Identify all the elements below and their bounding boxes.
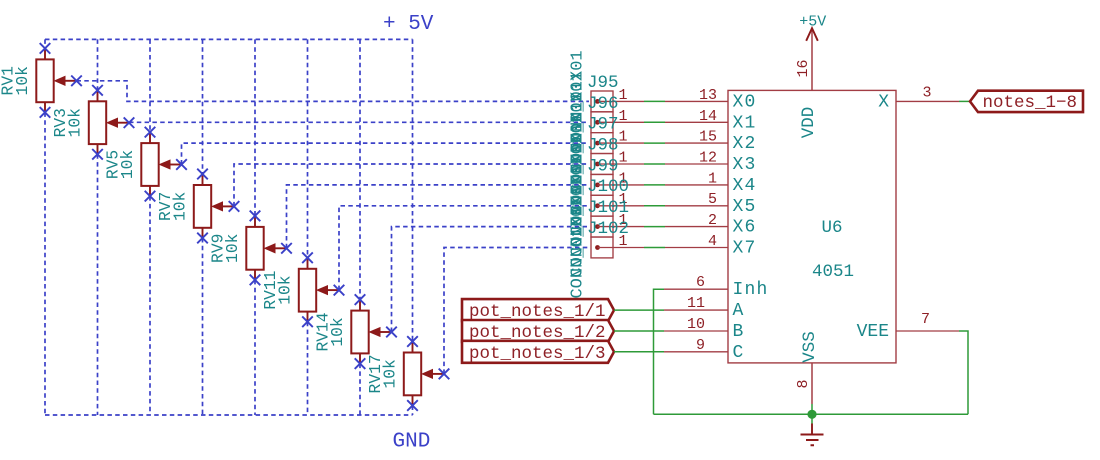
connector J102 CONN_01X01 [591, 237, 644, 258]
wire J100 to U6 X5 [644, 205, 665, 207]
junction X RV7 pin3 (bottom) [197, 233, 208, 244]
U6 pin 14 (X1) [665, 121, 728, 123]
net GND bottom bus wire [45, 414, 413, 416]
wire J99 to U6 X4 [644, 184, 665, 186]
wire pot_notes_1/2 to U6 [614, 330, 664, 332]
potentiometer RV1 10k [36, 48, 76, 112]
svg-text:notes_1−8: notes_1−8 [983, 93, 1078, 113]
junction X RV1 pin2 (wiper) [71, 76, 82, 87]
svg-text:J101: J101 [587, 198, 629, 218]
net +5V top bus wire [45, 38, 413, 40]
svg-text:J98: J98 [587, 136, 619, 156]
svg-text:X2: X2 [733, 134, 757, 154]
svg-text:9: 9 [696, 337, 705, 354]
U6 pin 1 (X4) [665, 184, 728, 186]
potentiometer RV14 10k [351, 300, 391, 364]
junction X RV3 pin2 (wiper) [124, 117, 135, 128]
wire J98 to U6 X3 [644, 163, 665, 165]
U6 pin 15 (X2) [665, 142, 728, 144]
wire +5V rail to RV17 top [412, 39, 414, 341]
junction X RV17 pin3 (bottom) [407, 400, 418, 411]
wire J102 to U6 X7 [644, 247, 665, 249]
wire RV9 bottom to GND bus [254, 280, 256, 415]
connector J95 CONN_01X01 [591, 91, 644, 112]
wire RV11 bottom to GND bus [307, 322, 309, 415]
junction X RV11 pin3 (bottom) [302, 316, 313, 327]
junction X RV5 pin1 (top) [145, 127, 156, 138]
U6 pin 5 (X5) [665, 205, 728, 207]
svg-text:10k: 10k [171, 192, 190, 221]
wire RV17 wiper to connector J102 [444, 248, 589, 374]
U6 pin 6 (Inh) [664, 288, 728, 290]
svg-text:X: X [878, 92, 889, 112]
connector J99 CONN_01X01 [591, 175, 644, 196]
svg-text:X4: X4 [733, 176, 757, 196]
wire RV9 wiper to connector J99 [287, 185, 590, 248]
junction X RV14 pin2 (wiper) [386, 327, 397, 338]
wire RV3 bottom to GND bus [97, 154, 99, 415]
wire VEE to ground net [959, 331, 968, 414]
wire J95 to U6 X0 [644, 100, 665, 102]
svg-text:1: 1 [618, 129, 627, 146]
wire pot_notes_1/1 to U6 [614, 309, 664, 311]
svg-text:A: A [733, 301, 745, 321]
svg-text:X1: X1 [733, 113, 757, 133]
svg-text:2: 2 [708, 212, 717, 229]
ground symbol GND [801, 414, 824, 445]
svg-text:X7: X7 [733, 239, 757, 259]
U6 pin 2 (X6) [665, 226, 728, 228]
junction X RV14 pin1 (top) [355, 294, 366, 305]
wire +5V rail to RV14 top [359, 39, 361, 299]
svg-text:VEE: VEE [857, 322, 889, 342]
U6 pin 9 (C) [664, 351, 728, 353]
connector J101 CONN_01X01 [591, 216, 644, 237]
wire RV1 bottom to GND bus [44, 112, 46, 415]
hierarchical label pot_notes_1/2 [462, 320, 614, 343]
U6 pin 8 (VSS) [811, 363, 813, 404]
junction X RV7 pin1 (top) [197, 169, 208, 180]
junction X RV3 pin3 (bottom) [92, 149, 103, 160]
svg-text:Inh: Inh [733, 280, 769, 300]
connector J97 CONN_01X01 [591, 133, 644, 154]
wire RV5 wiper to connector J97 [182, 143, 590, 164]
svg-text:7: 7 [921, 311, 930, 328]
wire +5V rail to RV1 top [44, 39, 46, 48]
hierarchical label notes_1-8 [970, 91, 1083, 113]
wire +5V rail to RV7 top [202, 39, 204, 174]
wire +5V rail to RV3 top [97, 39, 99, 90]
svg-text:CONN_01X01: CONN_01X01 [569, 196, 588, 298]
svg-text:3: 3 [922, 84, 931, 101]
U6 pin 7 (VEE) [896, 330, 959, 332]
svg-text:14: 14 [699, 108, 717, 125]
svg-text:10k: 10k [66, 108, 85, 137]
svg-text:J95: J95 [587, 73, 619, 93]
svg-text:11: 11 [687, 295, 705, 312]
svg-text:10k: 10k [276, 275, 295, 304]
svg-text:10k: 10k [223, 234, 242, 263]
svg-text:GND: GND [393, 431, 431, 454]
potentiometer RV5 10k [141, 132, 181, 196]
wire Inh to ground net riser [654, 289, 665, 414]
U6 pin 16 (VDD) wire up [811, 28, 813, 91]
hierarchical label pot_notes_1/3 [462, 341, 614, 364]
junction X RV11 pin2 (wiper) [334, 285, 345, 296]
svg-text:C: C [733, 343, 745, 363]
junction X RV9 pin2 (wiper) [281, 243, 292, 254]
wire X output to notes_1-8 [959, 100, 970, 102]
junction X RV17 pin2 (wiper) [439, 369, 450, 380]
svg-text:1: 1 [618, 108, 627, 125]
svg-text:J97: J97 [587, 115, 619, 135]
potentiometer RV7 10k [194, 174, 234, 238]
svg-text:J100: J100 [587, 177, 629, 197]
potentiometer RV11 10k [299, 258, 339, 322]
potentiometer RV9 10k [246, 216, 286, 280]
hierarchical label pot_notes_1/1 [462, 299, 614, 322]
wire +5V rail to RV11 top [307, 39, 309, 257]
U6 pin 3 (X output) [896, 100, 959, 102]
svg-text:pot_notes_1/3: pot_notes_1/3 [469, 344, 606, 364]
wire RV3 wiper to connector J96 [129, 121, 589, 123]
wire J101 to U6 X6 [644, 226, 665, 228]
junction X RV9 pin1 (top) [250, 211, 261, 222]
svg-text:U6: U6 [821, 218, 842, 238]
svg-text:10k: 10k [13, 66, 32, 95]
svg-text:13: 13 [699, 87, 717, 104]
potentiometer RV3 10k [89, 90, 129, 154]
wire RV7 wiper to connector J98 [234, 164, 589, 206]
wire VSS to junction [811, 404, 813, 414]
wire J96 to U6 X1 [644, 121, 665, 123]
junction X RV17 pin1 (top) [407, 336, 418, 347]
svg-text:1: 1 [618, 87, 627, 104]
connector J96 CONN_01X01 [591, 112, 644, 133]
U6 pin 10 (B) [664, 330, 728, 332]
junction X RV5 pin3 (bottom) [145, 191, 156, 202]
svg-text:5: 5 [708, 191, 717, 208]
junction X RV9 pin3 (bottom) [250, 275, 261, 286]
svg-text:16: 16 [795, 59, 812, 77]
U6 pin 4 (X7) [665, 247, 728, 249]
wire RV17 bottom to GND bus [412, 406, 414, 416]
junction X RV3 pin1 (top) [92, 85, 103, 96]
U6 pin 12 (X3) [665, 163, 728, 165]
svg-text:12: 12 [699, 150, 717, 167]
svg-text:1: 1 [618, 150, 627, 167]
svg-text:J99: J99 [587, 156, 619, 176]
wire RV11 wiper to connector J100 [339, 206, 589, 290]
U6 pin 11 (A) [664, 309, 728, 311]
svg-text:J96: J96 [587, 94, 619, 114]
wire +5V rail to RV9 top [254, 39, 256, 216]
junction X RV14 pin3 (bottom) [355, 358, 366, 369]
svg-text:VSS: VSS [800, 331, 820, 363]
wire RV1 wiper to connector J95 [77, 81, 590, 102]
junction dot ground net [807, 410, 816, 419]
svg-text:15: 15 [699, 129, 717, 146]
svg-text:10k: 10k [381, 359, 400, 388]
svg-text:B: B [733, 322, 745, 342]
svg-text:+5V: +5V [799, 13, 826, 30]
wire bottom ground net [654, 413, 969, 415]
wire RV14 bottom to GND bus [359, 364, 361, 415]
svg-text:X0: X0 [733, 92, 757, 112]
wire RV5 bottom to GND bus [149, 196, 151, 415]
svg-text:VDD: VDD [799, 107, 819, 139]
svg-text:6: 6 [696, 274, 705, 291]
op-amp U6 4051 analog multiplexer body [728, 90, 896, 363]
junction X RV11 pin1 (top) [302, 252, 313, 263]
svg-text:+ 5V: + 5V [383, 13, 434, 36]
wire J97 to U6 X2 [644, 142, 665, 144]
junction X RV1 pin1 (top) [40, 43, 51, 54]
connector J100 CONN_01X01 [591, 195, 644, 216]
junction X RV5 pin2 (wiper) [176, 159, 187, 170]
svg-text:10k: 10k [118, 150, 137, 179]
svg-text:X5: X5 [733, 197, 757, 217]
wire +5V rail to RV5 top [149, 39, 151, 132]
svg-text:1: 1 [708, 170, 717, 187]
svg-text:8: 8 [795, 379, 812, 388]
power symbol +5V at U6 [806, 28, 818, 41]
U6 pin 13 (X0) [665, 100, 728, 102]
wire RV14 wiper to connector J101 [392, 227, 590, 332]
wire pot_notes_1/3 to U6 [614, 351, 664, 353]
connector J98 CONN_01X01 [591, 154, 644, 175]
svg-text:X3: X3 [733, 155, 757, 175]
svg-text:10k: 10k [328, 317, 347, 346]
svg-text:4: 4 [708, 233, 717, 250]
potentiometer RV17 10k [404, 342, 444, 406]
wire RV7 bottom to GND bus [202, 238, 204, 415]
svg-text:J102: J102 [587, 219, 629, 239]
svg-text:X6: X6 [733, 218, 757, 238]
svg-text:4051: 4051 [812, 262, 854, 282]
junction X RV1 pin3 (bottom) [40, 107, 51, 118]
svg-text:10: 10 [687, 316, 705, 333]
junction X RV7 pin2 (wiper) [229, 201, 240, 212]
